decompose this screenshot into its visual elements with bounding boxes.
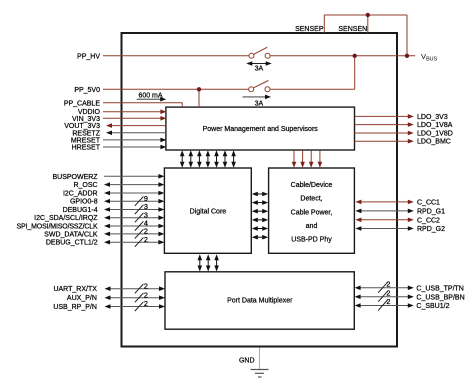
svg-text:RESETZ: RESETZ: [72, 130, 100, 137]
svg-text:PP_CABLE: PP_CABLE: [64, 100, 101, 107]
junction dot VBUS/PP_5V0: [353, 54, 357, 58]
main IC block boundary: [122, 33, 398, 347]
svg-text:Detect,: Detect,: [300, 196, 322, 203]
svg-text:LDO_1V8A: LDO_1V8A: [417, 122, 453, 129]
svg-text:GND: GND: [239, 358, 255, 365]
svg-text:3A: 3A: [255, 101, 264, 108]
svg-text:Cable Power,: Cable Power,: [291, 209, 333, 216]
wire VBUS: [270, 52, 437, 63]
wire SENSEP: [295, 15, 324, 33]
annotation 600 mA: [137, 92, 167, 101]
wire BUSPOWERZ: [52, 174, 164, 181]
wire C_CC2: [355, 217, 440, 224]
wire RPD_G2: [355, 226, 445, 233]
svg-text:Port Data Multiplexer: Port Data Multiplexer: [227, 298, 293, 305]
wire AUX_P/N: [67, 290, 165, 302]
wire PP_CABLE: [64, 100, 182, 107]
svg-text:C_USB_BP/BN: C_USB_BP/BN: [416, 294, 464, 301]
svg-text:C_SBU1/2: C_SBU1/2: [416, 303, 449, 310]
wire PP_HV: [77, 53, 249, 60]
svg-text:I2C_ADDR: I2C_ADDR: [63, 191, 98, 198]
svg-text:VIN_3V3: VIN_3V3: [72, 116, 100, 123]
svg-text:Digital Core: Digital Core: [190, 208, 227, 215]
wire LDO_3V3: [355, 114, 448, 121]
wire sense top bus: [324, 15, 407, 56]
svg-text:2: 2: [386, 280, 390, 289]
wire PP_5V0 to VBUS riser: [270, 56, 355, 90]
svg-text:Cable/Device: Cable/Device: [291, 182, 333, 189]
bus arrows Digital Core to Port Data Multiplexer: [198, 254, 219, 271]
wire DEBUG_CTL1/2: [46, 235, 165, 247]
svg-text:C_CC2: C_CC2: [417, 217, 440, 224]
wire LDO_BMC: [355, 139, 451, 146]
wire SWD_DATA/CLK: [44, 227, 164, 239]
svg-text:DEBUG1-4: DEBUG1-4: [63, 207, 98, 214]
block U1d Port Data Multiplexer: [165, 272, 354, 329]
wire RESETZ: [72, 130, 166, 137]
wire C_USB_TP/TN: [355, 280, 464, 293]
svg-text:PP_HV: PP_HV: [77, 53, 100, 60]
wire PP_5V0 tap to Power Management: [198, 89, 200, 107]
wire SPI_MOSI/MISO/SSZ/CLK: [17, 219, 165, 231]
wire C_CC1: [355, 199, 440, 206]
wire RPD_G1: [355, 208, 445, 215]
svg-text:VOUT_3V3: VOUT_3V3: [64, 123, 100, 130]
svg-text:GPIO0-8: GPIO0-8: [70, 199, 98, 206]
wire VDDIO: [78, 109, 167, 116]
block U1b Digital Core: [164, 168, 251, 253]
svg-text:Power Management and Superviso: Power Management and Supervisors: [203, 126, 319, 133]
svg-text:LDO_3V3: LDO_3V3: [417, 114, 448, 121]
wire C_SBU1/2: [355, 297, 450, 310]
svg-text:2: 2: [144, 290, 148, 299]
wire C_USB_BP/BN: [355, 289, 465, 302]
svg-text:C_USB_TP/TN: C_USB_TP/TN: [416, 285, 463, 292]
svg-text:AUX_P/N: AUX_P/N: [67, 295, 97, 302]
svg-text:DEBUG_CTL1/2: DEBUG_CTL1/2: [46, 240, 98, 247]
wire GPIO0-8: [70, 194, 164, 206]
junction dot VBUS/sense riser: [405, 54, 409, 58]
junction dot PP_5V0 tap: [197, 87, 201, 91]
svg-text:I2C_SDA/SCL/IRQZ: I2C_SDA/SCL/IRQZ: [34, 215, 98, 222]
svg-text:SENSEN: SENSEN: [338, 26, 367, 33]
svg-text:MRESET: MRESET: [71, 137, 101, 144]
wire VOUT_3V3: [64, 123, 166, 130]
wire LDO_1V8D: [355, 131, 453, 138]
svg-text:RPD_G1: RPD_G1: [417, 208, 445, 215]
svg-text:PP_5V0: PP_5V0: [74, 87, 100, 94]
svg-text:SWD_DATA/CLK: SWD_DATA/CLK: [44, 231, 98, 238]
wire UART_RX/TX: [53, 281, 165, 293]
svg-text:RPD_G2: RPD_G2: [417, 226, 445, 233]
bus arrows PM to Digital Core: [180, 150, 236, 167]
wire MRESET: [71, 137, 167, 144]
junction dot sense top: [366, 13, 370, 17]
svg-text:2: 2: [386, 297, 390, 306]
svg-text:R_OSC: R_OSC: [73, 182, 97, 189]
wire I2C_ADDR: [63, 191, 164, 198]
wire I2C_SDA/SCL/IRQZ: [34, 210, 164, 222]
bus arrows Digital Core to Cable/Device: [252, 192, 268, 240]
svg-text:SENSEP: SENSEP: [295, 26, 324, 33]
switch SW2 3A (PP_5V0): [243, 81, 272, 108]
block U1c Cable/Device Detect, Cable Power, and USB-PD Phy: [269, 168, 355, 253]
svg-text:2: 2: [144, 235, 148, 244]
svg-text:USB-PD Phy: USB-PD Phy: [291, 237, 332, 244]
block U1a Power Management and Supervisors: [166, 107, 355, 150]
wire HRESET: [72, 145, 167, 152]
svg-text:UART_RX/TX: UART_RX/TX: [53, 286, 97, 293]
wire PP_5V0: [74, 87, 248, 94]
wire DEBUG1-4: [63, 202, 165, 214]
svg-text:HRESET: HRESET: [72, 145, 101, 152]
wire VIN_3V3: [72, 116, 166, 123]
svg-text:2: 2: [144, 299, 148, 308]
svg-text:BUSPOWERZ: BUSPOWERZ: [52, 174, 98, 181]
ground: [239, 348, 269, 378]
svg-text:LDO_BMC: LDO_BMC: [417, 139, 451, 146]
wire USB_RP_P/N: [53, 299, 165, 311]
switch SW1 3A (PP_HV to VBUS): [246, 47, 271, 72]
svg-text:3A: 3A: [255, 65, 264, 72]
svg-text:600 mA: 600 mA: [138, 92, 162, 99]
svg-text:and: and: [306, 223, 318, 230]
svg-text:SPI_MOSI/MISO/SSZ/CLK: SPI_MOSI/MISO/SSZ/CLK: [17, 224, 99, 231]
svg-text:C_CC1: C_CC1: [417, 199, 440, 206]
supply arrows PM to Cable/Device: [292, 150, 323, 167]
wire LDO_1V8A: [355, 122, 453, 129]
wire R_OSC: [73, 182, 164, 189]
svg-text:2: 2: [144, 281, 148, 290]
wire SENSEN: [338, 15, 367, 33]
svg-text:2: 2: [386, 289, 390, 298]
svg-text:LDO_1V8D: LDO_1V8D: [417, 131, 453, 138]
svg-text:USB_RP_P/N: USB_RP_P/N: [53, 304, 97, 311]
